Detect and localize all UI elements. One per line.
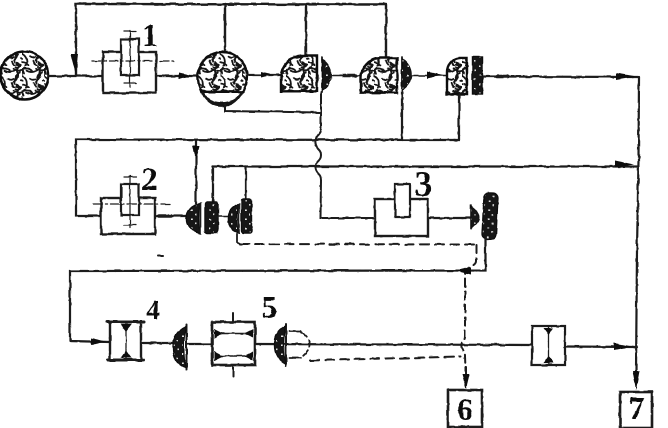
label 6	[458, 399, 472, 420]
dome 2 (textured half-drum)	[281, 56, 317, 92]
small filter unit on row 3 right	[532, 326, 565, 365]
lens pair 1: crescent	[187, 203, 201, 234]
wire: bar3 down then left to row 3 (with left arrow)	[70, 239, 486, 342]
crescent after unit 5	[275, 324, 287, 366]
label 7	[630, 398, 643, 419]
wire: row1 output to right vertical	[483, 75, 638, 78]
wire: unit 3 output	[428, 217, 471, 219]
arrow (right) on wire	[427, 72, 443, 79]
wire: dome 3 to dome 4	[411, 75, 447, 77]
unit 1 (opener/mixer box)	[92, 30, 174, 93]
unit 4 (feeder/filter box)	[107, 322, 144, 360]
carding ball (textured dome with dish)	[198, 52, 247, 105]
wire: lens to unit 5	[187, 343, 212, 345]
wire: unit 4 to lens	[141, 342, 174, 344]
lens pair 1: bar	[205, 202, 218, 233]
unit 3 (mixer box)	[375, 184, 428, 236]
label 3	[416, 172, 431, 196]
condenser bar after dome 4	[473, 57, 483, 94]
lens pair 2: crescent	[229, 204, 240, 233]
raw material ball (textured circle, far left)	[1, 52, 49, 100]
wire: unit 2 to lens pair 1	[155, 215, 186, 217]
wire: unit 1 to carding ball	[156, 75, 198, 77]
wire: right vertical down to box 7	[636, 77, 639, 372]
wire: top recycle bus with drops	[76, 4, 386, 76]
dome 4 (small textured half-drum)	[447, 58, 467, 94]
box 6	[448, 390, 482, 427]
lens after unit 4 (dark crescent)	[173, 325, 187, 370]
wire: carding ball to dome 2	[247, 74, 281, 76]
wire: carding ball bottom drain	[225, 104, 320, 113]
wire: crossing vertical from dome2 crescent to unit 3	[315, 92, 375, 218]
arrow dash on wire	[261, 72, 272, 78]
wire: filter to right vertical with arrow	[565, 345, 637, 348]
label 2	[143, 168, 157, 190]
unit 5 (lap former / press box)	[212, 313, 255, 377]
arrow (right) on wire	[179, 73, 192, 80]
unit 2 (opener/mixer box)	[93, 176, 171, 234]
label 4	[147, 301, 160, 319]
crescent after unit 3	[471, 205, 479, 229]
arrow (down) on drop	[193, 146, 200, 160]
lens pair 2: bar	[242, 199, 252, 233]
wire: dome4 down to bus B	[458, 94, 460, 140]
wire: bus B (second recycle line)	[76, 140, 459, 217]
label 5	[263, 297, 276, 318]
dome 3 (textured half-drum)	[361, 58, 397, 93]
wire: dome3 crescent down to bus B	[401, 91, 403, 140]
stray ink mark	[158, 255, 163, 257]
arrow (right) into unit 4	[91, 338, 106, 345]
wire: row 3 main line to small filter	[255, 344, 532, 345]
dashed waste line along row 3	[310, 357, 461, 361]
box 7	[620, 392, 652, 428]
wire: bus C drop to bar 2	[245, 167, 247, 200]
output crescent of dome 2	[322, 57, 332, 92]
wire: ball to unit 1	[49, 75, 104, 77]
wire: dome 2 to dome 3 (with dash mark)	[331, 75, 361, 77]
dashed lap bracket after crescent	[289, 331, 310, 358]
output crescent of dome 3	[402, 57, 411, 91]
label 1	[145, 25, 157, 46]
wire: bus C (third recycle line) with right arrow	[213, 165, 637, 167]
condenser bar after unit 3 (tilted)	[482, 193, 498, 240]
dashed waste line from lens pair 2 to box 6 drop	[237, 234, 240, 244]
arrow (right) at end of row1 wire	[616, 73, 637, 80]
arrow (down) into box 6	[465, 367, 467, 375]
arrow (down) into box 7	[633, 371, 640, 390]
wire: bar1 to crescent 2	[218, 216, 230, 218]
wire: bus C left drop to bar 1	[212, 167, 214, 203]
wire: drop from bus B to lens pair 1	[195, 140, 197, 203]
arrow (down) on left top-bus drop	[71, 54, 79, 74]
